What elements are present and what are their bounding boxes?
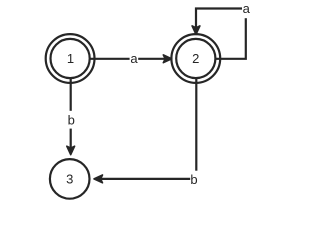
arrowhead into state2 top	[192, 26, 200, 35]
edge label a (self-loop 2)	[242, 1, 251, 18]
wire: edge state2 -> state3	[101, 78, 196, 179]
svg-text:1: 1	[67, 51, 74, 66]
arrowhead into state3 right	[94, 175, 103, 183]
state 3 (single circle)	[50, 159, 90, 199]
state 1 (accepting, double circle)	[46, 34, 95, 83]
node label 2	[192, 51, 199, 66]
edge label b (2->3)	[190, 171, 199, 188]
arrowhead into state3 top	[67, 146, 75, 155]
arrowhead into state2 left	[163, 55, 172, 63]
state 2 (accepting, double circle)	[171, 34, 220, 83]
svg-text:a: a	[130, 51, 138, 66]
svg-text:3: 3	[66, 171, 73, 186]
node label 3	[66, 171, 73, 186]
svg-text:b: b	[190, 172, 197, 187]
node label 1	[67, 51, 74, 66]
edge label b (1->3)	[67, 111, 76, 129]
wire: edge state1 -> state3	[70, 78, 72, 148]
wire: self-loop on state2	[196, 9, 246, 59]
wire: edge state1 -> state2	[90, 58, 165, 60]
svg-text:b: b	[68, 113, 75, 128]
svg-text:a: a	[243, 1, 251, 16]
edge label a (1->2)	[130, 51, 139, 68]
svg-text:2: 2	[192, 51, 199, 66]
